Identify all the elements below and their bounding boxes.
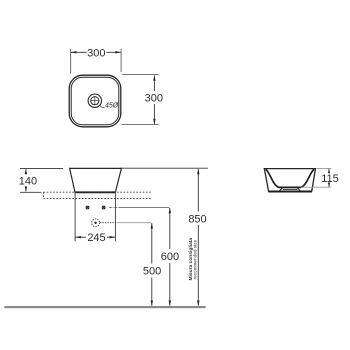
svg-text:140: 140: [19, 175, 37, 187]
dimension text 850: [188, 213, 206, 225]
dimension line 115: [328, 169, 330, 187]
leader line to 45Ø label: [100, 105, 105, 107]
dimension line 600: [169, 208, 171, 306]
dimension line 850: [197, 169, 199, 306]
svg-text:recommended size: recommended size: [192, 240, 197, 280]
dimension text 600: [161, 251, 179, 263]
dimension line 300 right: [153, 75, 155, 124]
svg-text:300: 300: [87, 47, 105, 59]
dimension text 500: [143, 266, 161, 278]
side section drain recess: [283, 188, 298, 190]
extension lines for right 300 dimension: [122, 75, 159, 125]
drain waste circles in plan: [88, 94, 101, 107]
note text Misura consigliata (rotated): [188, 238, 194, 281]
front view basin trapezoid: [70, 168, 122, 192]
extension lines for top 300 dimension: [71, 49, 121, 74]
extension line from basin rim to 850 dimension: [121, 167, 208, 169]
side section basin outline: [264, 169, 315, 192]
dimension text 300 right: [145, 93, 163, 105]
note text recommended size (rotated): [192, 240, 197, 280]
dimension line 140: [25, 169, 27, 191]
basin plan view outer rim: [69, 75, 121, 127]
tap hole symbol right: [102, 206, 105, 209]
countertop dashed outline: [44, 192, 151, 198]
label 45Ø: [105, 103, 119, 110]
dimension text 300 top: [87, 47, 105, 59]
extension line top for 140 dimension: [20, 167, 63, 169]
dimension line 245: [75, 236, 115, 238]
side section feet ticks: [279, 188, 300, 192]
floor line: [4, 306, 205, 308]
svg-text:245: 245: [87, 232, 105, 244]
svg-text:115: 115: [321, 173, 339, 185]
dash-dot leader from tap holes to 600 line: [109, 207, 169, 209]
svg-text:45Ø: 45Ø: [105, 103, 119, 110]
counter surface solid segment left: [20, 191, 41, 193]
basin plan view inner rim: [71, 77, 119, 125]
side section inner bowl curves: [266, 169, 314, 187]
dimension text 115: [321, 173, 339, 185]
dimension text 245: [87, 232, 105, 244]
extension lines for 115 dimension: [301, 169, 332, 188]
pedestal / wall lines below counter: [75, 192, 115, 241]
dashed leader from drain to 500 line: [100, 222, 151, 224]
svg-text:300: 300: [145, 93, 163, 105]
svg-text:600: 600: [161, 251, 179, 263]
dimension text 140: [19, 175, 37, 187]
drain hole dashed circle in front view: [92, 219, 100, 227]
dimension line 500: [151, 223, 153, 306]
tap hole symbol left: [86, 206, 89, 209]
svg-text:500: 500: [143, 266, 161, 278]
drain center-mark crosshair: [90, 96, 99, 105]
dimension line 300 top: [71, 51, 121, 53]
svg-text:850: 850: [188, 213, 206, 225]
